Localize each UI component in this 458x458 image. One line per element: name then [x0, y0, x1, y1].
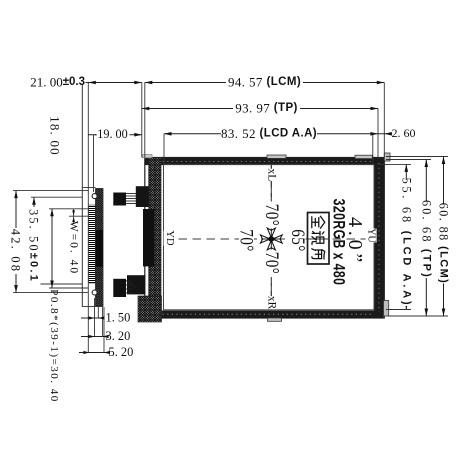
svg-text:1. 50: 1. 50	[106, 311, 131, 325]
svg-text:2. 60: 2. 60	[392, 126, 416, 140]
svg-text:18. 00: 18. 00	[48, 116, 63, 156]
svg-text:YD: YD	[164, 230, 175, 246]
svg-text:70°: 70°	[236, 229, 257, 251]
svg-text:xL: xL	[265, 169, 277, 182]
svg-text:60. 68 (TP): 60. 68 (TP)	[419, 200, 433, 279]
svg-text:65°: 65°	[288, 229, 309, 251]
svg-text:W=0. 40: W=0. 40	[67, 221, 79, 275]
svg-text:xR: xR	[265, 296, 277, 310]
svg-text:55. 68 (LCD A.A): 55. 68 (LCD A.A)	[399, 178, 413, 308]
svg-text:19. 00: 19. 00	[97, 127, 127, 141]
svg-text:94. 57 (LCM): 94. 57 (LCM)	[228, 75, 301, 90]
svg-text:83. 52 (LCD A.A): 83. 52 (LCD A.A)	[221, 126, 317, 141]
svg-text:5. 20: 5. 20	[109, 345, 134, 359]
svg-text:35. 50±0.1: 35. 50±0.1	[27, 209, 41, 283]
svg-text:70°: 70°	[262, 204, 283, 226]
svg-text:42. 08: 42. 08	[9, 229, 23, 273]
svg-text:320RGB x 480: 320RGB x 480	[329, 199, 347, 286]
svg-text:3. 20: 3. 20	[106, 329, 131, 343]
svg-text:21. 00±0.3: 21. 00±0.3	[30, 75, 85, 90]
svg-text:YU: YU	[366, 228, 377, 243]
svg-text:70°: 70°	[262, 252, 283, 274]
svg-text:P0.8*(39-1)=30. 40: P0.8*(39-1)=30. 40	[48, 289, 60, 403]
svg-text:93. 97 (TP): 93. 97 (TP)	[235, 101, 298, 116]
svg-text:60. 88 (LCM): 60. 88 (LCM)	[437, 203, 451, 284]
